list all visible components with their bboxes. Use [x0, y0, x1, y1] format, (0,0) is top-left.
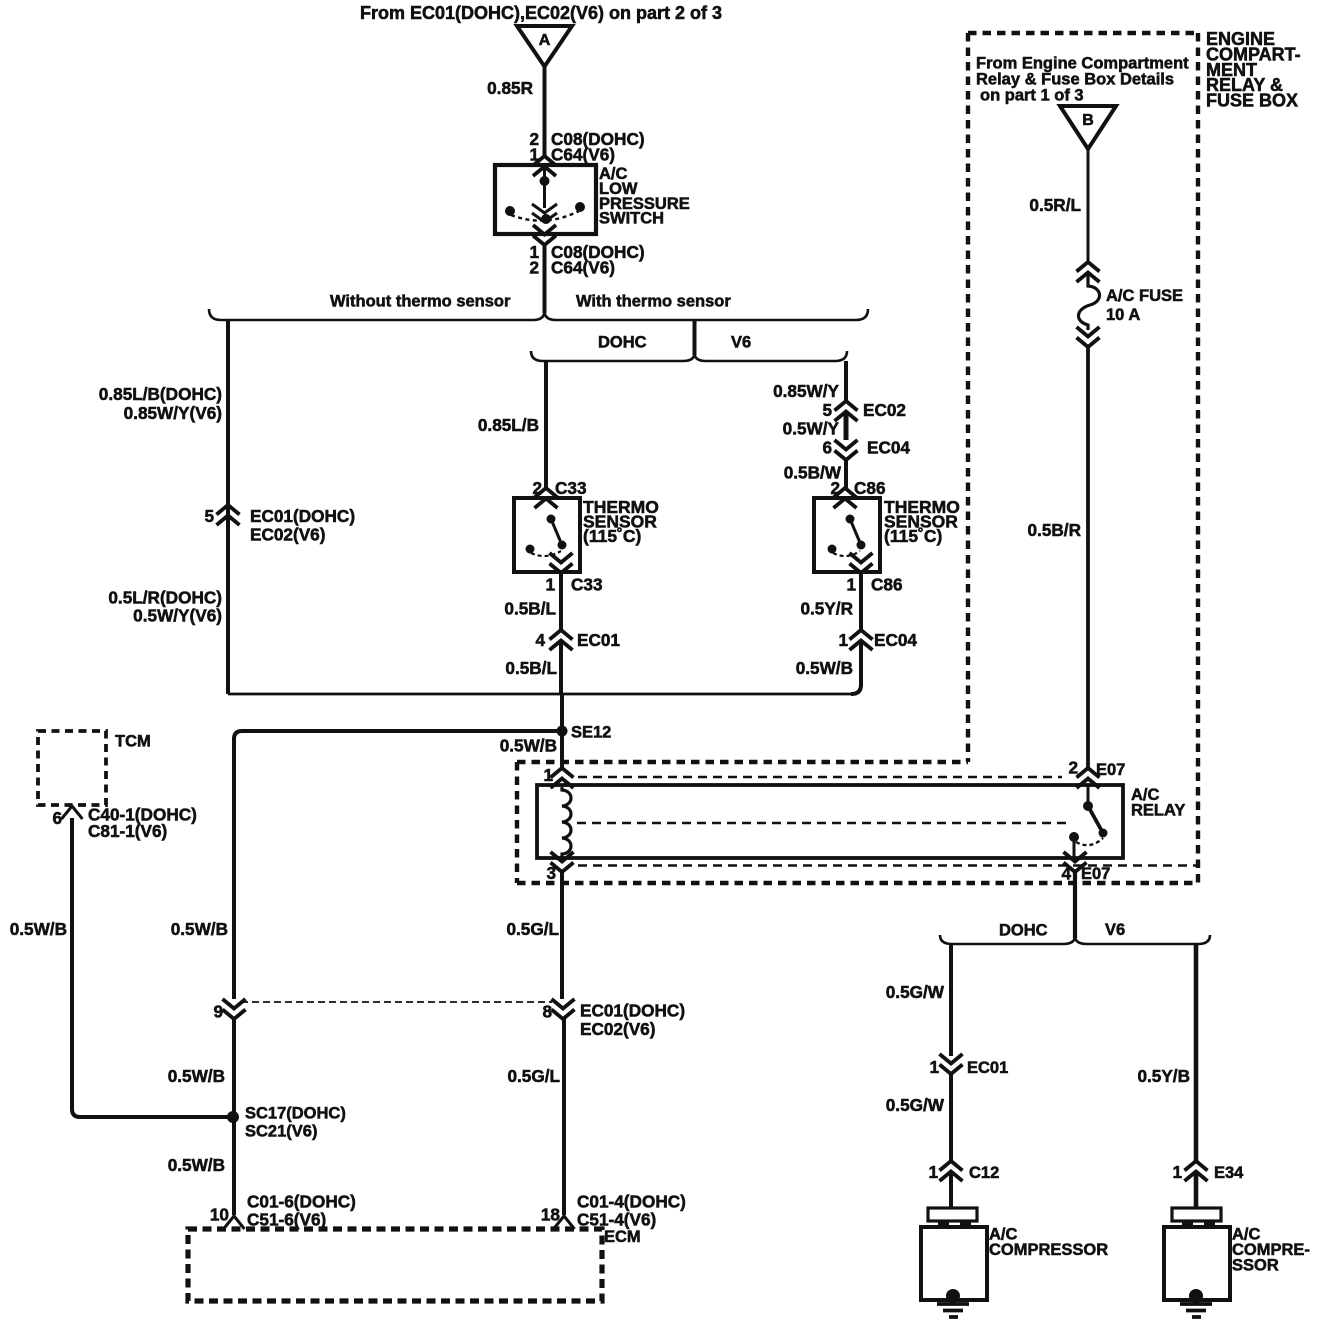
svg-text:0.5B/L: 0.5B/L — [505, 658, 557, 678]
svg-text:0.5L/R(DOHC): 0.5L/R(DOHC) — [108, 588, 222, 608]
svg-text:0.85R: 0.85R — [487, 78, 533, 98]
relay pin 1 chevrons — [551, 768, 574, 788]
svg-text:0.5Y/B: 0.5Y/B — [1137, 1066, 1190, 1086]
relay pin 4 chevrons — [1064, 852, 1087, 872]
svg-text:EC01: EC01 — [967, 1059, 1008, 1077]
svg-text:0.5G/L: 0.5G/L — [507, 1066, 560, 1086]
wire 0.5R/L from triangle B — [1087, 149, 1090, 264]
svg-text:0.5R/L: 0.5R/L — [1029, 195, 1081, 215]
svg-text:1: 1 — [545, 575, 555, 595]
TCM dashed box — [38, 731, 106, 805]
svg-text:1: 1 — [846, 575, 856, 595]
connector 1 EC04 chevrons up — [850, 630, 873, 650]
relay internal dashed link — [577, 822, 1066, 824]
junction wire joining branches — [228, 693, 851, 696]
svg-text:(115˚C): (115˚C) — [884, 526, 942, 546]
connector 5 EC01/EC02 chevrons up — [217, 505, 240, 525]
connector 4 EC01 chevrons up — [550, 630, 573, 650]
svg-text:C33: C33 — [571, 575, 603, 595]
wire left branch (without thermo sensor) vertical — [226, 320, 230, 694]
svg-text:EC02(V6): EC02(V6) — [580, 1019, 655, 1039]
relay switch: dashed action arc — [1076, 838, 1103, 845]
thin dashed link between connectors 9 and 8 — [241, 1001, 552, 1003]
V6 compressor terminal feet — [1182, 1221, 1193, 1227]
svg-text:C51-4(V6): C51-4(V6) — [577, 1210, 656, 1230]
svg-text:C01-4(DOHC): C01-4(DOHC) — [577, 1192, 686, 1212]
svg-text:0.85W/Y(V6): 0.85W/Y(V6) — [124, 403, 222, 423]
svg-text:Without thermo sensor: Without thermo sensor — [330, 293, 511, 311]
svg-text:0.5W/B: 0.5W/B — [171, 919, 228, 939]
svg-text:4: 4 — [535, 630, 545, 650]
sensor internal: slant contact line — [850, 519, 861, 545]
svg-text:V6: V6 — [731, 334, 751, 352]
wire from relay pin 4 down to compressor bracket — [1073, 870, 1077, 938]
wire 0.85R from triangle A to A/C low pressure switch — [543, 66, 547, 156]
svg-text:6: 6 — [52, 808, 62, 828]
svg-text:ECM: ECM — [604, 1228, 641, 1246]
ground symbol V6 — [1180, 1304, 1212, 1317]
svg-text:1: 1 — [929, 1057, 939, 1077]
svg-text:on part 1 of 3: on part 1 of 3 — [980, 87, 1084, 105]
wire V6 branch down to junction — [851, 640, 861, 694]
svg-text:0.5Y/R: 0.5Y/R — [800, 599, 853, 619]
bracket split wire (DOHC / V6 compressor) — [940, 935, 1210, 944]
svg-text:0.5W/Y: 0.5W/Y — [783, 419, 840, 439]
wire from SE12 left to TCM/ECM branch — [234, 731, 562, 739]
wire DOHC compressor branch — [949, 944, 953, 1056]
A/C compressor (DOHC) box — [921, 1227, 987, 1300]
switch internal: dashed travel arc — [511, 211, 579, 221]
svg-text:C81-1(V6): C81-1(V6) — [88, 821, 167, 841]
svg-text:E07: E07 — [1081, 865, 1110, 883]
entry chevrons into thermo sensor DOHC — [535, 488, 558, 508]
relay switch: stub to pin 4 — [1073, 840, 1076, 857]
svg-text:C64(V6): C64(V6) — [551, 145, 615, 165]
wire 0.5B/R from fuse to relay pin 2 — [1086, 345, 1090, 769]
connector 8 chevrons down — [552, 999, 575, 1019]
V6 compressor ground dot — [1189, 1289, 1203, 1303]
DOHC compressor terminal feet — [938, 1221, 949, 1227]
wire 0.5G/L from relay pin 3 to ECM pin 18 — [562, 870, 564, 1215]
svg-text:DOHC: DOHC — [598, 334, 647, 352]
svg-text:E07: E07 — [1096, 761, 1125, 779]
relay switch: stub from pin 2 — [1087, 786, 1090, 802]
switch internal: top contact dot — [540, 176, 550, 186]
switch exit chevrons down — [533, 225, 556, 245]
svg-text:0.5W/Y(V6): 0.5W/Y(V6) — [133, 606, 222, 626]
sensor exit chevrons down — [550, 553, 573, 573]
thermo sensor (DOHC) box — [514, 498, 580, 572]
connector 9 chevrons down — [223, 999, 246, 1019]
sensor internal: dashed arc — [531, 551, 561, 556]
svg-text:EC01(DOHC): EC01(DOHC) — [250, 506, 355, 526]
wire below sensor DOHC — [559, 571, 563, 630]
svg-text:10 A: 10 A — [1106, 306, 1140, 324]
switch internal: center contact dot — [541, 214, 551, 224]
bracket split wire (without / with thermo sensor) — [209, 309, 868, 320]
off-page connector triangle A — [517, 26, 572, 67]
svg-text:0.5G/L: 0.5G/L — [506, 919, 559, 939]
sensor internal: lower-right dot — [857, 541, 866, 550]
entry chevrons into thermo sensor V6 — [834, 488, 857, 508]
relay connector dashed line bottom — [578, 864, 1196, 866]
svg-text:C51-6(V6): C51-6(V6) — [247, 1210, 326, 1230]
svg-text:0.5W/B: 0.5W/B — [10, 919, 67, 939]
svg-text:5: 5 — [822, 400, 832, 420]
svg-text:A/C FUSE: A/C FUSE — [1106, 287, 1183, 305]
connector 5 EC02 chevrons up — [835, 401, 858, 421]
relay connector dashed line top — [578, 776, 1062, 778]
svg-text:FUSE BOX: FUSE BOX — [1206, 91, 1298, 111]
stub wire from bracket1 to bracket2 — [693, 320, 697, 355]
DOHC compressor terminal cap — [928, 1208, 977, 1221]
svg-text:EC01: EC01 — [577, 630, 620, 650]
svg-text:3: 3 — [546, 863, 556, 883]
svg-text:0.5W/B: 0.5W/B — [796, 658, 853, 678]
relay pin 3 chevrons — [551, 852, 574, 872]
svg-text:0.5B/L: 0.5B/L — [504, 599, 556, 619]
sensor exit chevrons down — [850, 553, 873, 573]
A/C fuse 10A element (S-curve) — [1078, 272, 1099, 330]
bracket split wire (DOHC / V6 thermo sensor) — [531, 351, 847, 361]
svg-text:C12: C12 — [969, 1164, 999, 1182]
svg-text:0.5G/W: 0.5G/W — [886, 1095, 945, 1115]
svg-text:(115˚C): (115˚C) — [583, 526, 641, 546]
svg-text:C01-6(DOHC): C01-6(DOHC) — [247, 1192, 356, 1212]
switch internal: right contact dot — [575, 202, 585, 212]
relay coil — [562, 787, 571, 857]
wire into V6 compressor — [1194, 1171, 1199, 1208]
svg-text:EC04: EC04 — [867, 438, 910, 458]
ground symbol DOHC — [937, 1304, 969, 1317]
wire V6 thermo branch upper — [844, 361, 848, 403]
svg-text:EC02: EC02 — [863, 400, 906, 420]
wire between EC02 and EC04 — [844, 411, 849, 440]
svg-text:SC21(V6): SC21(V6) — [245, 1123, 317, 1141]
ECM dashed box — [188, 1229, 602, 1301]
wire from SE12 to relay pin 1 — [560, 731, 564, 769]
ECM pin 18 fork — [554, 1216, 575, 1229]
relay switch: armature line — [1088, 806, 1103, 833]
svg-text:2: 2 — [529, 258, 539, 278]
wire 0.5W/B middle vertical from SE12 branch to ECM — [232, 737, 236, 1215]
svg-text:EC04: EC04 — [874, 630, 917, 650]
wire below sensor V6 — [859, 571, 863, 630]
connector 1 EC01 chevrons down — [940, 1054, 963, 1074]
svg-text:0.85L/B: 0.85L/B — [478, 415, 539, 435]
A/C compressor (V6) box — [1164, 1227, 1230, 1300]
svg-text:1: 1 — [928, 1162, 938, 1182]
svg-text:10: 10 — [210, 1205, 229, 1225]
svg-text:With thermo sensor: With thermo sensor — [576, 293, 731, 311]
switch internal: left contact dot — [505, 206, 515, 216]
TCM pin 6 fork — [62, 806, 83, 819]
wire segment — [949, 1072, 953, 1163]
svg-text:1: 1 — [1172, 1162, 1182, 1182]
svg-text:0.85L/B(DOHC): 0.85L/B(DOHC) — [99, 384, 222, 404]
relay switch: lower contact dot — [1069, 832, 1079, 842]
svg-text:C33: C33 — [555, 478, 587, 498]
svg-text:SWITCH: SWITCH — [599, 210, 664, 228]
sensor internal: upper dot — [846, 515, 855, 524]
svg-text:0.5W/B: 0.5W/B — [168, 1155, 225, 1175]
svg-text:From EC01(DOHC),EC02(V6) on pa: From EC01(DOHC),EC02(V6) on part 2 of 3 — [360, 3, 722, 23]
svg-text:6: 6 — [822, 438, 832, 458]
svg-text:4: 4 — [1061, 864, 1071, 884]
relay switch: upper contact dot — [1083, 801, 1093, 811]
wire DOHC branch to junction — [559, 640, 563, 694]
wire segment drop to SE12 — [560, 694, 564, 731]
svg-text:9: 9 — [213, 1002, 223, 1022]
svg-text:0.85W/Y: 0.85W/Y — [773, 381, 839, 401]
connector 6 EC04 chevrons down — [835, 440, 858, 460]
svg-text:0.5W/B: 0.5W/B — [168, 1066, 225, 1086]
svg-text:18: 18 — [541, 1205, 561, 1225]
svg-text:SC17(DOHC): SC17(DOHC) — [245, 1105, 346, 1123]
connector 1 E34 chevrons up — [1185, 1161, 1208, 1181]
switch internal: wire stub — [543, 166, 546, 208]
DOHC compressor ground dot — [946, 1289, 960, 1303]
sensor internal: lower-right dot — [558, 541, 567, 550]
wire DOHC thermo branch upper — [544, 361, 548, 488]
wire to sensor V6 — [844, 458, 848, 488]
switch internal: moving contact arrows (down chevrons) — [532, 204, 557, 222]
sensor internal: lower-left dot — [828, 545, 837, 554]
sensor internal: upper dot — [547, 515, 556, 524]
engine compartment relay and fuse box dashed enclosure — [968, 33, 1198, 883]
svg-text:0.5W/B: 0.5W/B — [500, 736, 557, 756]
svg-text:1: 1 — [543, 765, 553, 785]
V6 compressor terminal cap — [1172, 1208, 1221, 1221]
wire V6 compressor branch — [1194, 944, 1199, 1163]
sensor internal: slant contact line — [551, 519, 562, 545]
svg-text:EC01(DOHC): EC01(DOHC) — [580, 1001, 685, 1021]
off-page connector triangle B — [1060, 106, 1116, 149]
relay switch: armature end dot — [1099, 829, 1108, 838]
svg-text:2: 2 — [1068, 758, 1078, 778]
thermo sensor (V6) box — [814, 498, 880, 572]
connector pin into switch (chevrons up) — [533, 156, 556, 176]
svg-text:0.5B/R: 0.5B/R — [1028, 520, 1082, 540]
svg-text:C86: C86 — [854, 478, 886, 498]
A/C low pressure switch box — [495, 165, 596, 234]
A/C relay box — [537, 785, 1123, 858]
svg-text:SE12: SE12 — [571, 724, 611, 742]
svg-text:5: 5 — [204, 506, 214, 526]
sensor internal: dashed arc — [833, 551, 860, 556]
connector chevrons down below fuse — [1077, 327, 1100, 347]
svg-text:COMPRESSOR: COMPRESSOR — [989, 1241, 1108, 1259]
wire 0.5W/B from TCM down and right to SC17 junction — [72, 818, 233, 1117]
svg-text:V6: V6 — [1105, 921, 1125, 939]
svg-text:DOHC: DOHC — [999, 922, 1048, 940]
svg-text:SSOR: SSOR — [1232, 1257, 1279, 1275]
svg-text:A: A — [539, 32, 551, 49]
svg-text:B: B — [1082, 112, 1094, 129]
svg-text:8: 8 — [542, 1002, 552, 1022]
wire into DOHC compressor — [949, 1171, 953, 1208]
svg-text:0.5G/W: 0.5G/W — [886, 982, 945, 1002]
sensor internal: lower-left dot — [526, 545, 535, 554]
svg-text:C86: C86 — [871, 575, 903, 595]
connector chevrons up above fuse — [1077, 262, 1100, 282]
A/C relay dashed enclosure — [517, 762, 1198, 883]
svg-text:TCM: TCM — [115, 733, 151, 751]
svg-text:1: 1 — [838, 630, 848, 650]
svg-text:C64(V6): C64(V6) — [551, 258, 615, 278]
svg-text:EC02(V6): EC02(V6) — [250, 525, 325, 545]
relay pin 2 chevrons — [1077, 768, 1100, 788]
node SE12 dot — [557, 726, 568, 737]
node SC17/SC21 junction dot — [227, 1111, 239, 1123]
connector 1 C12 chevrons up — [940, 1161, 963, 1181]
ECM pin 10 fork — [224, 1216, 245, 1229]
svg-text:RELAY: RELAY — [1131, 802, 1185, 820]
svg-text:E34: E34 — [1214, 1164, 1244, 1182]
wire from switch down to split — [543, 243, 547, 313]
